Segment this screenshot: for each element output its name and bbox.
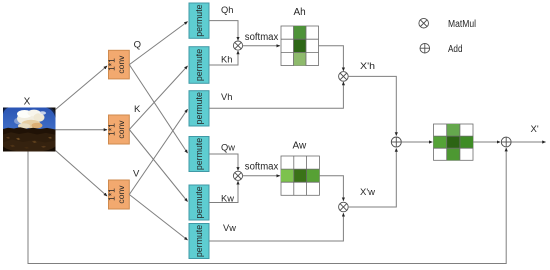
svg-text:softmax: softmax: [245, 32, 278, 43]
smoke plume: [14, 118, 25, 125]
wire K conv to Kh permute: [129, 66, 187, 130]
wire matmul w2 to add merge: [348, 149, 396, 208]
svg-text:V: V: [133, 169, 140, 180]
svg-text:Vh: Vh: [221, 92, 232, 102]
svg-text:conv: conv: [116, 120, 126, 139]
wire Qh to matmul h1: [209, 21, 238, 41]
svg-text:MatMul: MatMul: [448, 19, 476, 30]
permute Vh block: [189, 91, 209, 126]
wire X' grid to add out: [473, 141, 500, 143]
svg-text:Qw: Qw: [221, 143, 235, 153]
svg-text:Add: Add: [448, 44, 463, 55]
svg-text:X': X': [531, 124, 539, 135]
wire X to K conv: [56, 129, 108, 131]
svg-text:Aw: Aw: [293, 140, 307, 151]
svg-text:Ah: Ah: [294, 7, 306, 18]
wire Kh to matmul h1: [209, 51, 238, 65]
wire Vw to matmul w2: [209, 213, 343, 241]
wire K conv to Kw permute: [129, 130, 187, 202]
wire X to V conv: [56, 151, 108, 197]
svg-text:1*1: 1*1: [107, 123, 117, 136]
input image X (photo of smoke plume over mountains): [3, 108, 56, 152]
wire matmul w1 to Aw: [243, 175, 280, 177]
wire matmul h1 to Ah: [243, 45, 280, 47]
svg-text:Q: Q: [134, 39, 141, 50]
wire Q conv to Qh permute: [129, 22, 187, 65]
add out circle: [501, 137, 511, 147]
wire Ah to matmul h2: [319, 46, 344, 71]
wire add out to X': [511, 141, 545, 143]
add merge circle: [391, 137, 401, 147]
svg-text:permute: permute: [194, 49, 204, 81]
svg-text:permute: permute: [194, 225, 204, 257]
svg-text:X'h: X'h: [360, 61, 375, 72]
permute Qw block: [189, 137, 209, 172]
wire Qw to matmul w1: [209, 154, 238, 170]
legend matmul symbol: [419, 18, 429, 28]
wire Vh to matmul h2: [209, 82, 343, 108]
svg-text:K: K: [134, 104, 141, 115]
svg-text:1*1: 1*1: [107, 58, 117, 71]
svg-text:permute: permute: [194, 4, 204, 36]
svg-text:Kh: Kh: [221, 55, 232, 65]
permute Kw block: [189, 185, 209, 220]
svg-text:X: X: [24, 97, 31, 108]
svg-text:1*1: 1*1: [107, 188, 117, 201]
grid Aw: [281, 156, 319, 195]
permute Vw block: [189, 224, 209, 259]
wire Kw to matmul w1: [209, 181, 238, 202]
wire residual from X to add out: [28, 148, 506, 263]
wire V conv to Vh permute: [129, 109, 187, 194]
wire X to Q conv: [56, 66, 108, 110]
matmul w2 circle: [339, 202, 349, 212]
grid Ah: [281, 26, 319, 66]
svg-text:conv: conv: [116, 55, 126, 74]
svg-text:permute: permute: [194, 92, 204, 124]
permute Qh block: [189, 3, 209, 38]
svg-text:Qh: Qh: [221, 5, 233, 15]
wire Aw to matmul w2: [319, 176, 343, 201]
svg-text:X'w: X'w: [360, 187, 375, 198]
wire matmul h2 to add merge: [348, 76, 396, 135]
conv Q block: [107, 50, 130, 79]
conv K block: [107, 115, 130, 144]
conv V block: [107, 180, 130, 209]
svg-text:permute: permute: [194, 138, 204, 170]
wire Q conv to Qw permute: [129, 65, 187, 153]
wire V conv to Vw permute: [129, 195, 187, 241]
svg-text:permute: permute: [194, 186, 204, 218]
svg-text:softmax: softmax: [245, 162, 278, 173]
svg-text:Kw: Kw: [221, 193, 234, 203]
wire add merge to X' grid: [401, 141, 432, 143]
svg-text:conv: conv: [116, 185, 126, 204]
permute Kh block: [189, 47, 209, 84]
svg-text:Vw: Vw: [223, 223, 236, 233]
legend add symbol: [420, 43, 430, 53]
mountain terrain: [3, 127, 56, 151]
matmul h2 circle: [339, 72, 349, 82]
grid X' output feature: [434, 124, 474, 160]
vignette corners: [3, 108, 9, 115]
matmul w1 circle: [233, 171, 242, 180]
matmul h1 circle: [233, 41, 242, 50]
